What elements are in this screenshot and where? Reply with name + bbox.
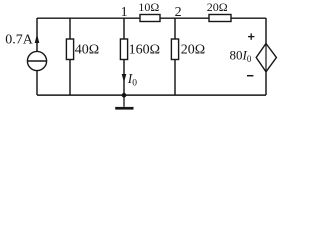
svg-text:20Ω: 20Ω — [181, 43, 205, 58]
wire 20ohm vertical branch upper — [174, 18, 176, 40]
wire top rail node1-node2 — [37, 17, 266, 19]
svg-text:10Ω: 10Ω — [138, 0, 159, 14]
svg-text:160Ω: 160Ω — [129, 43, 160, 58]
svg-text:40Ω: 40Ω — [75, 43, 99, 58]
svg-text:2: 2 — [175, 5, 182, 20]
current source I=0.7A (circle with bar) — [27, 51, 46, 70]
wire 160ohm branch lower — [123, 59, 125, 95]
resistor 10ohm (horizontal box on top rail) — [140, 15, 160, 22]
svg-text:20Ω: 20Ω — [207, 0, 228, 14]
resistor 20ohm vertical (box) — [171, 39, 178, 60]
wire left branch lower — [36, 71, 38, 96]
svg-text:1: 1 — [121, 5, 128, 20]
wire 40ohm branch upper — [69, 18, 71, 40]
wire 160ohm branch upper — [123, 18, 125, 40]
current direction arrow on left branch — [35, 34, 40, 43]
arrow I0 (current through 160ohm branch, pointing down) — [122, 74, 127, 83]
junction dot at ground node — [122, 93, 127, 98]
wire bottom rail — [37, 94, 266, 96]
wire right branch lower — [265, 72, 267, 96]
dependent source 80*I0 (diamond) — [256, 44, 276, 72]
wire left branch upper — [36, 18, 38, 52]
resistor 160ohm (vertical box) — [120, 39, 127, 60]
wire right branch upper — [265, 18, 267, 44]
svg-text:0.7A: 0.7A — [5, 32, 34, 47]
resistor 20ohm (horizontal box on top rail) — [209, 15, 231, 22]
ground — [115, 95, 133, 110]
minus sign of dependent source — [247, 75, 253, 77]
wire 20ohm vertical branch lower — [174, 59, 176, 95]
plus sign of dependent source — [248, 33, 254, 39]
resistor 40ohm (vertical box) — [66, 39, 73, 60]
wire 40ohm branch lower — [69, 59, 71, 95]
